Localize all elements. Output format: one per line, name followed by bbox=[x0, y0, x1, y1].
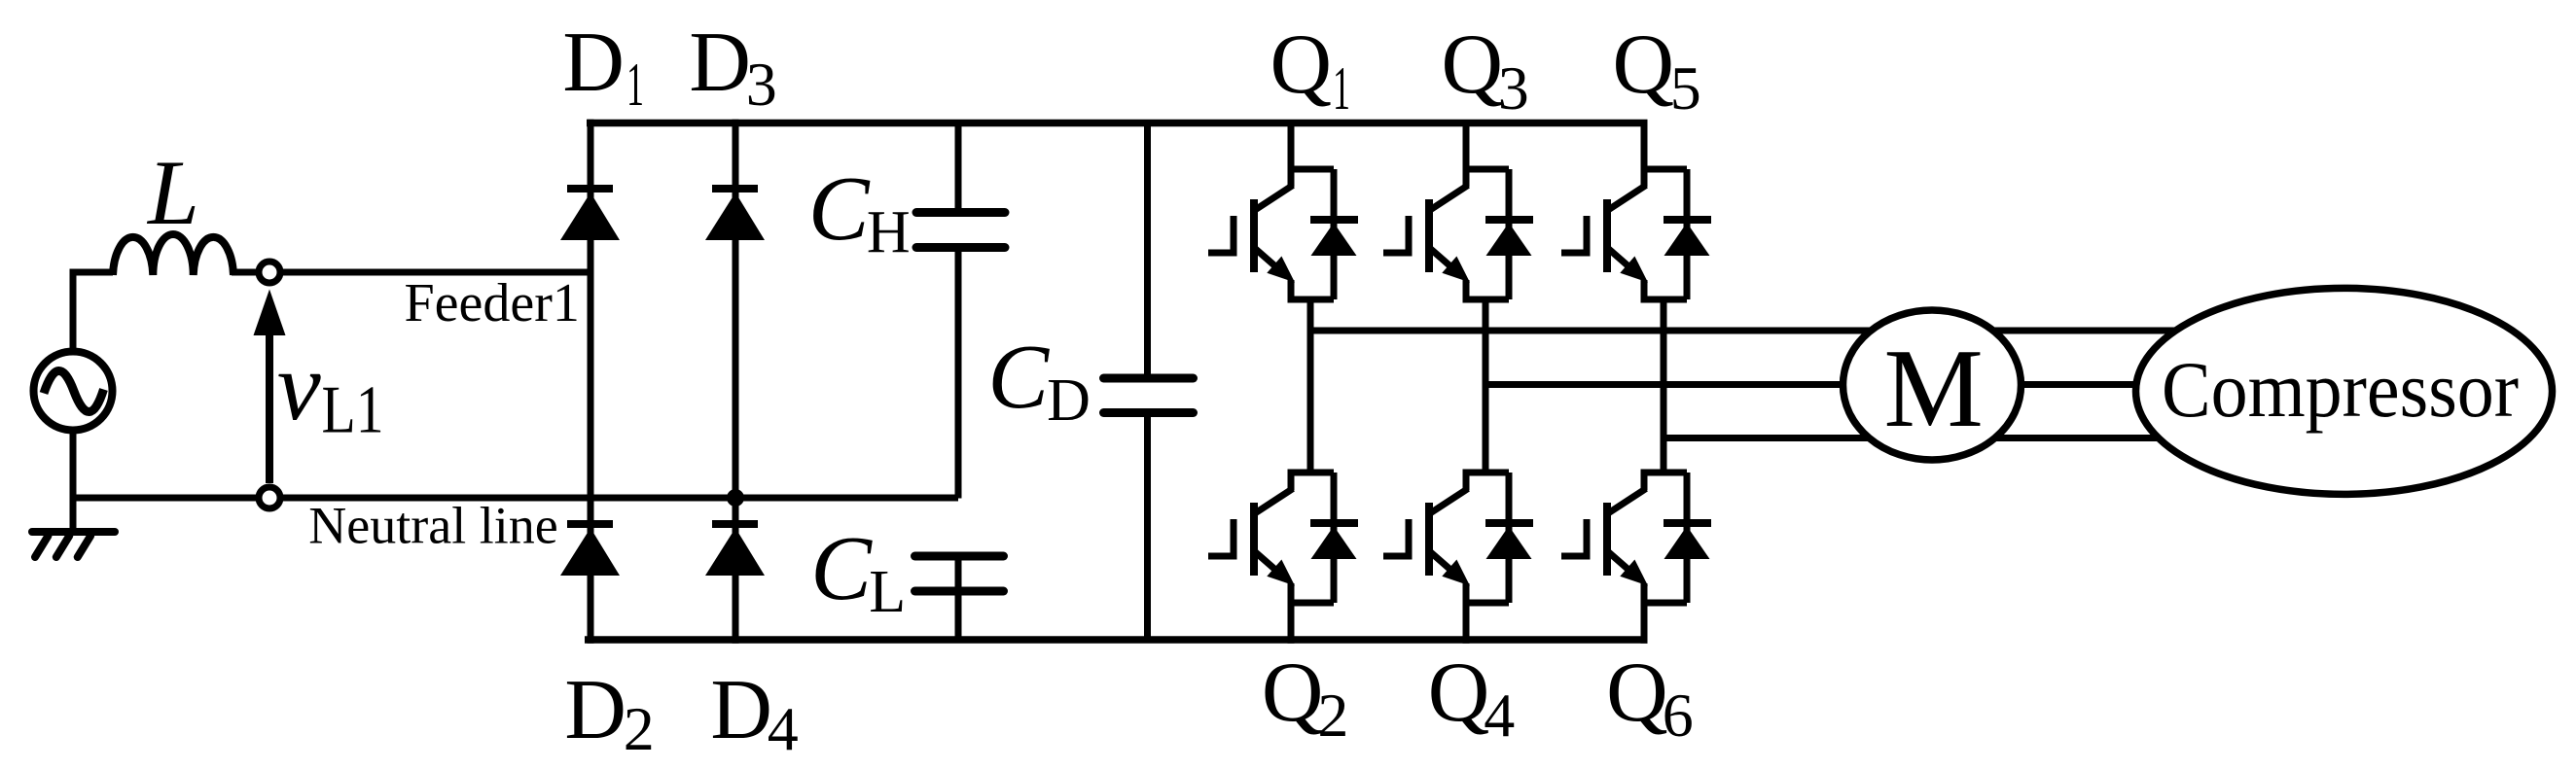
svg-text:1: 1 bbox=[1333, 53, 1350, 122]
svg-text:2: 2 bbox=[1317, 681, 1348, 750]
svg-text:L: L bbox=[869, 559, 906, 625]
label CH bbox=[808, 158, 911, 265]
svg-text:2: 2 bbox=[624, 694, 655, 763]
wire CD column bottom bbox=[1144, 412, 1151, 640]
transistor Q2 bbox=[1208, 472, 1334, 644]
diode anti-parallel of Q6 bbox=[1664, 472, 1711, 603]
svg-text:D: D bbox=[562, 16, 625, 110]
diode anti-parallel of Q2 bbox=[1310, 472, 1358, 603]
label Q5 bbox=[1613, 17, 1701, 122]
svg-text:C: C bbox=[808, 158, 871, 260]
diode anti-parallel of Q4 bbox=[1485, 472, 1533, 603]
transistor Q6 bbox=[1561, 472, 1687, 644]
label D2 bbox=[564, 663, 654, 763]
label Q1 bbox=[1270, 17, 1351, 122]
svg-text:4: 4 bbox=[1484, 681, 1515, 750]
label Q2 bbox=[1262, 646, 1349, 750]
svg-text:5: 5 bbox=[1670, 53, 1701, 122]
wire Feeder1 bbox=[232, 269, 594, 276]
transistor Q1 bbox=[1208, 123, 1334, 300]
wire phase U bbox=[1307, 328, 2345, 334]
wire rectifier leg D1 D2 bbox=[588, 120, 594, 644]
wire CH CL column mid bbox=[955, 247, 962, 499]
svg-text:M: M bbox=[1884, 327, 1984, 450]
wire from AC source to inductor bbox=[73, 272, 113, 502]
svg-text:3: 3 bbox=[746, 50, 777, 119]
svg-text:Q: Q bbox=[1428, 646, 1490, 740]
wire phase leg Q3 Q4 bbox=[1483, 299, 1489, 472]
svg-text:L: L bbox=[146, 141, 199, 244]
svg-text:4: 4 bbox=[768, 694, 799, 763]
diode anti-parallel of Q1 bbox=[1310, 169, 1358, 299]
wire CH CL column top bbox=[955, 123, 962, 214]
svg-text:Q: Q bbox=[1262, 646, 1324, 740]
transistor Q5 bbox=[1561, 123, 1687, 300]
svg-text:Neutral line: Neutral line bbox=[308, 497, 557, 555]
wire CD column top bbox=[1144, 123, 1151, 379]
junction neutral to D3 D4 leg bbox=[727, 489, 744, 507]
wire phase W bbox=[1661, 435, 2345, 441]
transistor Q3 bbox=[1383, 123, 1509, 300]
svg-text:D: D bbox=[1047, 367, 1091, 434]
wire bottom DC bus bbox=[585, 636, 1648, 644]
wire phase leg Q1 Q2 bbox=[1307, 299, 1314, 472]
compressor bbox=[2136, 288, 2553, 494]
svg-text:C: C bbox=[987, 327, 1050, 428]
motor M bbox=[1843, 310, 2021, 460]
label D1 bbox=[562, 16, 644, 119]
ground bbox=[32, 498, 115, 557]
svg-text:L1: L1 bbox=[322, 373, 384, 448]
wire CH CL column bottom bbox=[955, 556, 962, 641]
wire Neutral line bbox=[70, 495, 959, 502]
diode D4 bbox=[705, 524, 765, 576]
svg-text:Feeder1: Feeder1 bbox=[405, 273, 580, 333]
diode D3 bbox=[705, 189, 765, 240]
wire phase V bbox=[1483, 381, 2345, 388]
wire top DC bus bbox=[587, 120, 1648, 127]
svg-text:v: v bbox=[277, 332, 321, 440]
svg-text:1: 1 bbox=[626, 50, 644, 119]
diode anti-parallel of Q3 bbox=[1485, 169, 1533, 299]
transistor Q4 bbox=[1383, 472, 1509, 644]
svg-text:D: D bbox=[689, 16, 751, 110]
svg-text:6: 6 bbox=[1663, 681, 1694, 750]
node Neutral terminal bbox=[259, 487, 280, 508]
svg-text:Compressor: Compressor bbox=[2162, 345, 2519, 434]
label CD bbox=[987, 327, 1090, 434]
capacitor CH bbox=[916, 213, 1005, 248]
wire rectifier leg D3 D4 bbox=[733, 120, 739, 644]
svg-text:3: 3 bbox=[1498, 53, 1529, 122]
svg-text:D: D bbox=[710, 663, 772, 757]
diode D1 bbox=[560, 189, 620, 240]
node Feeder1 terminal bbox=[259, 262, 280, 283]
label D4 bbox=[710, 663, 798, 763]
label Q6 bbox=[1606, 646, 1694, 750]
label Q3 bbox=[1442, 17, 1529, 122]
wire phase leg Q5 Q6 bbox=[1661, 299, 1667, 472]
label CL bbox=[810, 518, 906, 625]
svg-text:Q: Q bbox=[1270, 17, 1333, 112]
svg-text:Q: Q bbox=[1606, 646, 1668, 740]
inductor L bbox=[113, 234, 233, 275]
arrow vL1 bbox=[254, 290, 286, 484]
label Q4 bbox=[1428, 646, 1516, 750]
AC source bbox=[34, 352, 113, 431]
svg-text:H: H bbox=[867, 199, 911, 265]
label D3 bbox=[689, 16, 776, 119]
svg-text:C: C bbox=[810, 518, 873, 619]
svg-text:Q: Q bbox=[1442, 17, 1504, 112]
svg-text:Q: Q bbox=[1613, 17, 1675, 112]
capacitor CL bbox=[915, 556, 1004, 591]
capacitor CD bbox=[1104, 378, 1194, 413]
svg-text:D: D bbox=[564, 663, 626, 757]
label vL1 bbox=[277, 332, 384, 448]
diode anti-parallel of Q5 bbox=[1664, 169, 1711, 299]
diode D2 bbox=[560, 524, 620, 576]
